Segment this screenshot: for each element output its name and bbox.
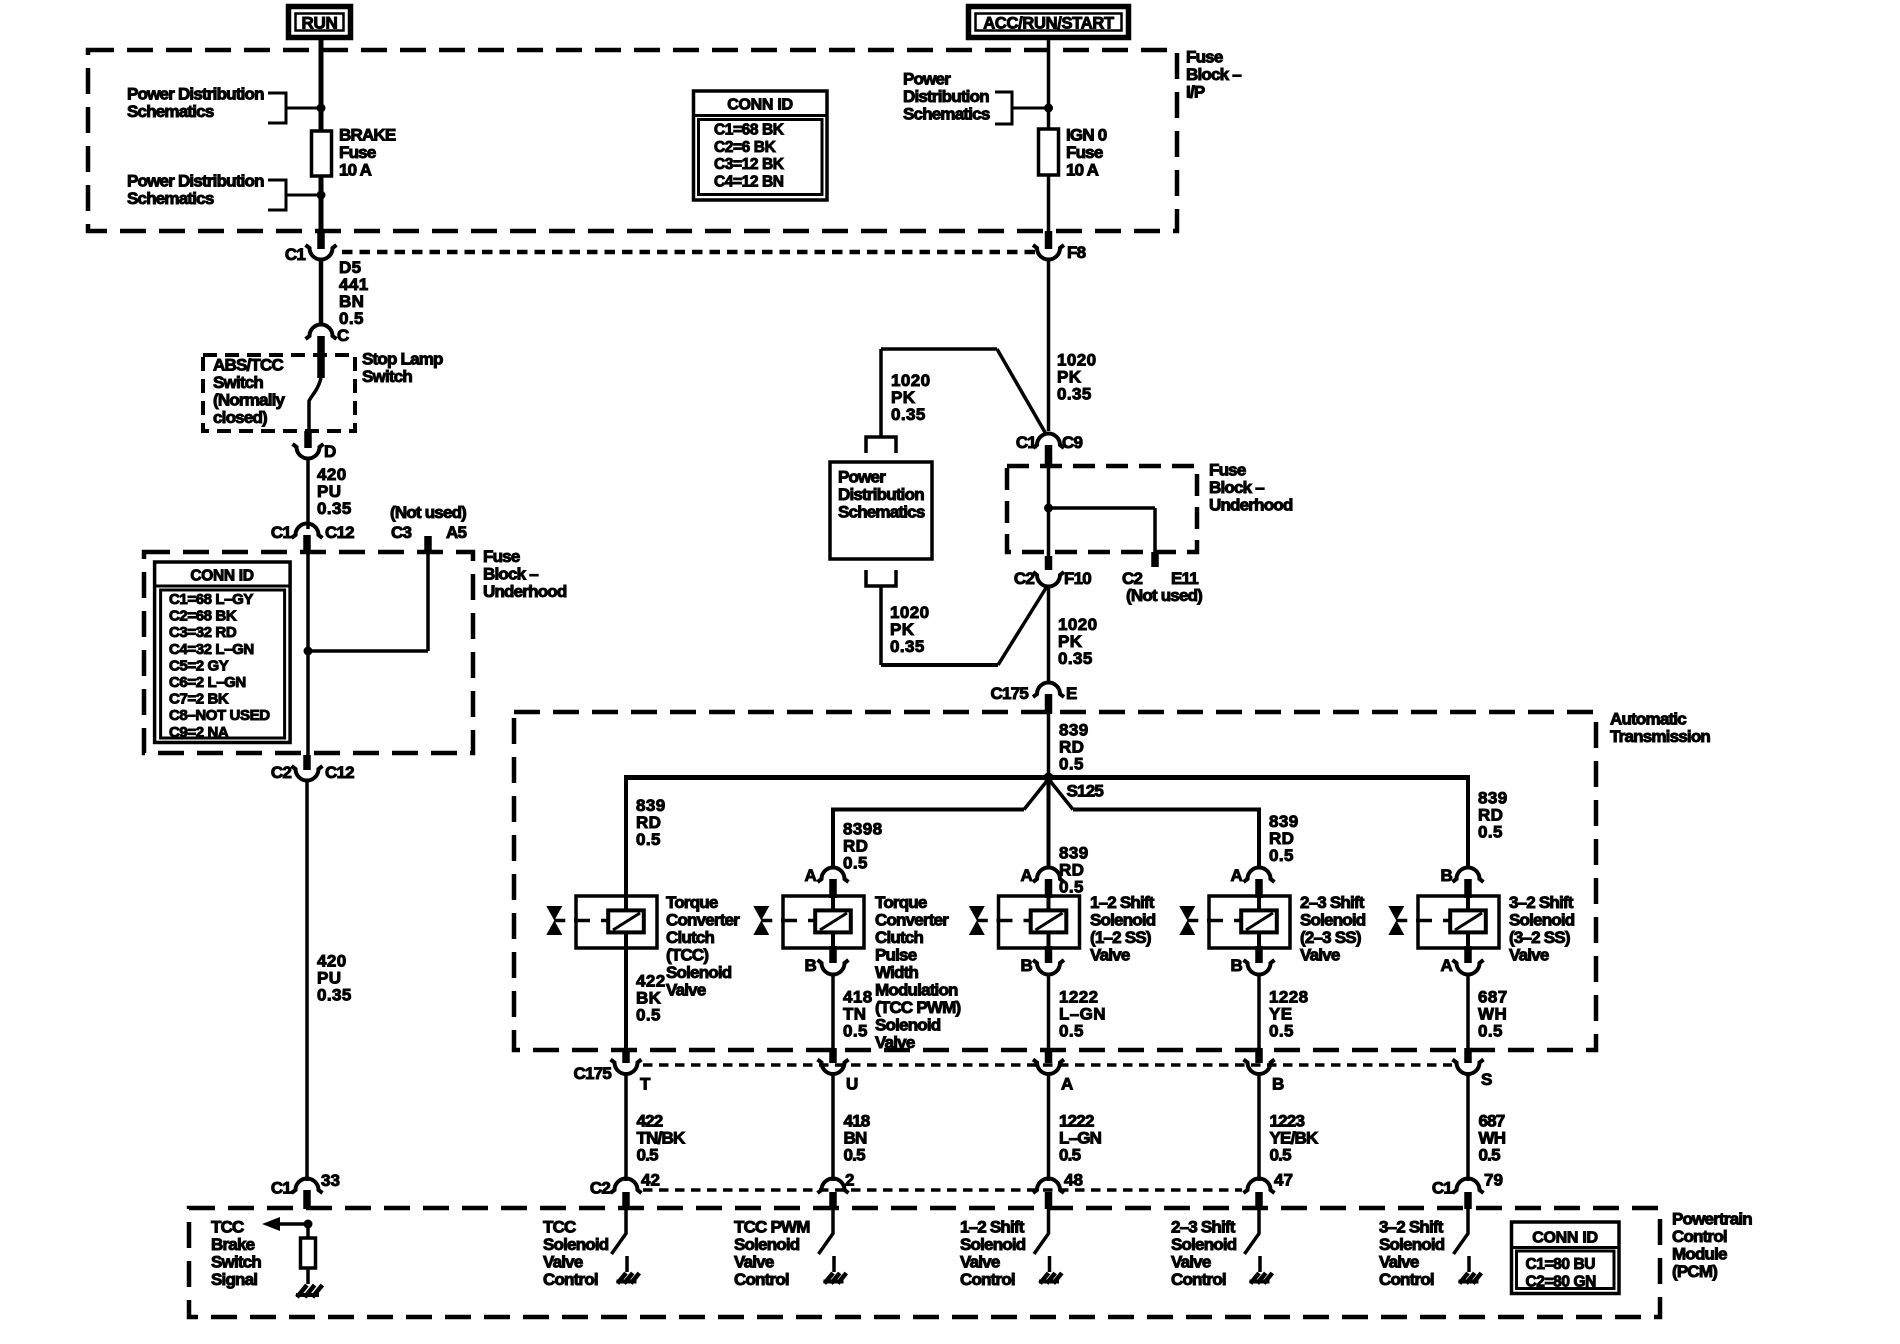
svg-text:C12: C12 xyxy=(325,763,354,782)
svg-text:0.5: 0.5 xyxy=(1479,1146,1501,1165)
svg-text:Solenoid: Solenoid xyxy=(1171,1235,1237,1254)
svg-text:(Normally: (Normally xyxy=(213,391,286,410)
svg-text:0.5: 0.5 xyxy=(637,1146,659,1165)
wire C175 to PCM (1222) xyxy=(1047,1074,1051,1181)
svg-text:Stop Lamp: Stop Lamp xyxy=(362,350,443,369)
svg-text:Solenoid: Solenoid xyxy=(1509,911,1575,930)
fuse block underhood dashed box (left) xyxy=(144,552,473,753)
svg-text:C1: C1 xyxy=(285,245,305,264)
wire C175 to PCM (687) xyxy=(1466,1074,1470,1181)
svg-text:Schematics: Schematics xyxy=(838,503,925,522)
wire C175/E to S125 xyxy=(1047,712,1051,779)
connector dashed line C1-F8 xyxy=(342,250,1035,255)
svg-text:Valve: Valve xyxy=(1379,1253,1419,1272)
svg-text:B: B xyxy=(1231,956,1243,975)
splice dot S125 xyxy=(1044,773,1054,783)
connector C1/79 (PCM) xyxy=(1453,1179,1484,1194)
svg-text:0.35: 0.35 xyxy=(1058,649,1093,668)
wire ACC/RUN/START to F8 xyxy=(1047,40,1051,249)
svg-text:Valve: Valve xyxy=(875,1033,915,1052)
svg-text:Brake: Brake xyxy=(211,1235,255,1254)
svg-text:C: C xyxy=(337,326,349,345)
bracket power distribution schematics box (top) xyxy=(866,437,896,453)
svg-text:Control: Control xyxy=(1672,1227,1727,1246)
svg-text:C2=80 GN: C2=80 GN xyxy=(1526,1274,1597,1291)
wire junction to E11 xyxy=(1049,506,1156,510)
wire TCC solenoid to C175/T xyxy=(624,948,628,1050)
svg-text:F8: F8 xyxy=(1067,243,1086,262)
svg-text:ABS/TCC: ABS/TCC xyxy=(213,356,283,375)
powertrain control module dashed box xyxy=(189,1208,1660,1317)
svg-text:S125: S125 xyxy=(1067,782,1104,801)
svg-text:TCC PWM: TCC PWM xyxy=(734,1218,810,1237)
svg-text:F10: F10 xyxy=(1064,569,1091,588)
svg-text:U: U xyxy=(846,1075,858,1094)
svg-text:Block –: Block – xyxy=(1186,65,1241,84)
wire drop to TCC solenoid xyxy=(624,775,628,896)
svg-text:Clutch: Clutch xyxy=(666,928,715,947)
wire branch to power distribution (top) xyxy=(881,347,997,351)
fuse BRAKE 10A xyxy=(312,131,332,176)
power source box ACC/RUN/START xyxy=(969,7,1129,38)
wire B to C175/U xyxy=(831,974,835,1050)
solenoid valve TCC PWM xyxy=(783,896,864,948)
svg-text:C3=32 RD: C3=32 RD xyxy=(169,624,237,641)
svg-text:0.5: 0.5 xyxy=(1059,755,1084,774)
connector 2 (PCM) xyxy=(818,1179,849,1194)
svg-text:CONN ID: CONN ID xyxy=(190,568,253,585)
connector 47 (PCM) xyxy=(1244,1179,1275,1194)
svg-text:(Not used): (Not used) xyxy=(390,503,466,522)
svg-text:10 A: 10 A xyxy=(1066,161,1099,180)
connector B (TCC PWM solenoid) xyxy=(829,946,837,963)
svg-text:Valve: Valve xyxy=(960,1253,1000,1272)
svg-text:Valve: Valve xyxy=(1171,1253,1211,1272)
svg-text:Power: Power xyxy=(903,70,951,89)
ground (TCC brake switch) xyxy=(296,1293,319,1297)
splice bus S125 xyxy=(626,775,1468,780)
wire A5 to junction xyxy=(426,552,430,651)
svg-text:A: A xyxy=(805,866,817,885)
svg-text:Torque: Torque xyxy=(875,893,927,912)
svg-text:(1–2 SS): (1–2 SS) xyxy=(1090,928,1151,947)
svg-text:47: 47 xyxy=(1274,1171,1293,1190)
connector C2/F10 (underhood fuse block out) xyxy=(1045,556,1053,570)
wire inside underhood block xyxy=(306,550,310,758)
svg-text:0.5: 0.5 xyxy=(636,830,661,849)
wire C175 to PCM (422) xyxy=(624,1074,628,1181)
svg-text:Power: Power xyxy=(838,468,886,487)
svg-text:BRAKE: BRAKE xyxy=(339,126,396,145)
power source box RUN xyxy=(289,7,351,38)
connector C175/S xyxy=(1464,1048,1472,1063)
svg-text:33: 33 xyxy=(321,1171,340,1190)
svg-text:C8–NOT USED: C8–NOT USED xyxy=(169,707,270,724)
svg-text:0.5: 0.5 xyxy=(1270,1146,1292,1165)
svg-text:Fuse: Fuse xyxy=(1209,461,1246,480)
connector dotted line PCM C2 xyxy=(643,1188,1242,1191)
wire C175 to PCM (1223) xyxy=(1257,1074,1261,1181)
svg-text:C9=2 NA: C9=2 NA xyxy=(169,724,229,741)
svg-text:Distribution: Distribution xyxy=(838,485,924,504)
svg-text:0.5: 0.5 xyxy=(1269,1022,1294,1041)
svg-text:RUN: RUN xyxy=(302,14,338,33)
svg-text:Valve: Valve xyxy=(543,1253,583,1272)
svg-text:Switch: Switch xyxy=(362,367,412,386)
svg-text:Power Distribution: Power Distribution xyxy=(127,85,264,104)
solenoid valve 3-2 shift xyxy=(1418,896,1499,948)
svg-text:1–2 Shift: 1–2 Shift xyxy=(1090,893,1155,912)
connector F8 (fuse block I/P, right) xyxy=(1045,231,1053,249)
svg-text:C9: C9 xyxy=(1062,433,1082,452)
wire C175 to PCM (418) xyxy=(831,1074,835,1181)
junction dot xyxy=(304,647,313,656)
svg-text:0.35: 0.35 xyxy=(1057,385,1092,404)
svg-text:IGN 0: IGN 0 xyxy=(1066,126,1107,145)
svg-text:Module: Module xyxy=(1672,1245,1727,1264)
svg-text:(2–3 SS): (2–3 SS) xyxy=(1300,928,1361,947)
svg-text:C1=68 L–GY: C1=68 L–GY xyxy=(169,591,253,608)
connector C1/33 (PCM left) xyxy=(292,1179,323,1194)
svg-text:Torque: Torque xyxy=(666,893,718,912)
svg-text:C3=12 BK: C3=12 BK xyxy=(714,156,785,173)
stop lamp switch blade xyxy=(309,378,321,431)
junction dot xyxy=(1044,504,1053,513)
wire inside underhood block (right) xyxy=(1047,462,1051,560)
svg-text:C1: C1 xyxy=(271,523,291,542)
svg-text:C2: C2 xyxy=(271,763,291,782)
diagonal wire to C1/C9 xyxy=(997,349,1046,434)
wire RUN to C1 xyxy=(319,40,324,247)
connector B (1-2 shift solenoid) xyxy=(1045,946,1053,963)
diagonal wire to C2/F10 xyxy=(998,588,1046,665)
conn id table (PCM) xyxy=(1512,1222,1620,1294)
svg-text:A5: A5 xyxy=(446,523,466,542)
svg-text:Solenoid: Solenoid xyxy=(1300,911,1366,930)
svg-text:Transmission: Transmission xyxy=(1610,727,1710,746)
svg-text:C4=12 BN: C4=12 BN xyxy=(714,174,784,191)
svg-text:0.5: 0.5 xyxy=(1059,1022,1084,1041)
switch 1-2 shift solenoid valve control xyxy=(1045,1192,1053,1209)
switch TCC solenoid valve control xyxy=(622,1192,630,1209)
wire drop to 2-3 shift solenoid xyxy=(1257,808,1261,869)
svg-text:Signal: Signal xyxy=(211,1270,257,1289)
connector C175/T xyxy=(622,1048,630,1063)
svg-text:0.35: 0.35 xyxy=(317,499,352,518)
svg-text:Valve: Valve xyxy=(1300,946,1340,965)
svg-text:Valve: Valve xyxy=(1090,946,1130,965)
bracket power distribution schematics box (bottom) xyxy=(866,570,896,586)
svg-text:Switch: Switch xyxy=(211,1253,261,1272)
svg-text:Fuse: Fuse xyxy=(1066,143,1103,162)
svg-text:Fuse: Fuse xyxy=(1186,48,1223,67)
svg-text:0.5: 0.5 xyxy=(844,1146,866,1165)
fuse IGN 0 10A xyxy=(1039,129,1059,175)
wire C2/C12 to C1/33 xyxy=(305,780,309,1181)
svg-text:Power Distribution: Power Distribution xyxy=(127,172,264,191)
connector dotted line C175 xyxy=(643,1063,1452,1066)
svg-text:(3–2 SS): (3–2 SS) xyxy=(1509,928,1570,947)
bracket to power distribution schematics (upper left) xyxy=(268,93,286,123)
switch 2-3 shift solenoid valve control xyxy=(1255,1192,1263,1209)
svg-text:Solenoid: Solenoid xyxy=(1090,911,1156,930)
junction dot xyxy=(304,1220,313,1229)
wire A to C175/S xyxy=(1466,974,1470,1050)
svg-text:T: T xyxy=(640,1075,651,1094)
wire drop to 1-2 shift solenoid xyxy=(1047,779,1051,868)
svg-text:Block –: Block – xyxy=(483,565,538,584)
connector 48 (PCM) xyxy=(1033,1179,1064,1194)
svg-text:D: D xyxy=(324,442,336,461)
connector A (TCC PWM solenoid) xyxy=(818,868,849,883)
svg-text:0.5: 0.5 xyxy=(843,1022,868,1041)
solenoid valve 2-3 shift xyxy=(1209,896,1290,948)
svg-text:CONN ID: CONN ID xyxy=(727,97,792,114)
wire C1 to C xyxy=(319,259,324,326)
svg-text:A: A xyxy=(1061,1075,1073,1094)
connector B (3-2 shift solenoid) xyxy=(1453,868,1484,883)
svg-text:Valve: Valve xyxy=(666,981,706,1000)
svg-text:Block –: Block – xyxy=(1209,478,1264,497)
wire B to C175/A xyxy=(1047,974,1051,1050)
arrow TCC brake switch signal xyxy=(276,1222,308,1226)
svg-text:C7=2 BK: C7=2 BK xyxy=(169,691,229,708)
connector A (2-3 shift solenoid) xyxy=(1244,868,1275,883)
svg-text:I/P: I/P xyxy=(1186,83,1205,102)
svg-text:Valve: Valve xyxy=(734,1253,774,1272)
svg-text:C2=68 BK: C2=68 BK xyxy=(169,608,237,625)
svg-text:C5=2 GY: C5=2 GY xyxy=(169,657,229,674)
svg-text:2–3 Shift: 2–3 Shift xyxy=(1300,893,1365,912)
wire drop to TCC PWM solenoid xyxy=(831,808,835,869)
svg-text:Valve: Valve xyxy=(1509,946,1549,965)
svg-text:Clutch: Clutch xyxy=(875,928,924,947)
svg-text:(TCC): (TCC) xyxy=(666,946,708,965)
svg-text:TCC: TCC xyxy=(543,1218,576,1237)
svg-text:S: S xyxy=(1481,1070,1492,1089)
svg-text:Width: Width xyxy=(875,963,918,982)
svg-text:Schematics: Schematics xyxy=(127,189,214,208)
svg-text:C2: C2 xyxy=(590,1179,610,1198)
solenoid valve TCC xyxy=(576,896,657,948)
svg-text:Fuse: Fuse xyxy=(483,547,520,566)
svg-text:Control: Control xyxy=(960,1270,1015,1289)
svg-text:Solenoid: Solenoid xyxy=(543,1235,609,1254)
stub A5 (not used) xyxy=(424,536,432,554)
svg-text:0.5: 0.5 xyxy=(1478,823,1503,842)
bracket to power distribution schematics (right) xyxy=(995,92,1012,124)
bracket to power distribution schematics (lower left) xyxy=(268,180,286,210)
connector C1/C12 (underhood fuse block in) xyxy=(292,524,323,539)
svg-text:Switch: Switch xyxy=(213,373,263,392)
svg-text:closed): closed) xyxy=(213,408,267,427)
conn id table (fuse block I/P) xyxy=(694,91,828,200)
connector C1 (fuse block I/P, left) xyxy=(317,231,325,249)
connector C175/E (transmission in) xyxy=(1033,683,1064,698)
svg-text:Control: Control xyxy=(734,1270,789,1289)
svg-text:Converter: Converter xyxy=(875,911,949,930)
svg-text:2: 2 xyxy=(845,1171,854,1190)
svg-text:3–2 Shift: 3–2 Shift xyxy=(1509,893,1574,912)
svg-text:Control: Control xyxy=(1379,1270,1434,1289)
svg-text:Underhood: Underhood xyxy=(1209,496,1293,515)
svg-text:0.35: 0.35 xyxy=(317,986,352,1005)
connector C2/C12 (underhood fuse block out) xyxy=(303,755,311,770)
svg-text:Schematics: Schematics xyxy=(903,105,990,124)
solenoid valve 1-2 shift xyxy=(999,896,1080,948)
resistor (pull-up) TCC brake switch xyxy=(306,1224,310,1238)
svg-text:Solenoid: Solenoid xyxy=(734,1235,800,1254)
svg-text:Powertrain: Powertrain xyxy=(1672,1210,1752,1229)
svg-text:B: B xyxy=(1441,866,1453,885)
svg-text:Schematics: Schematics xyxy=(127,102,214,121)
svg-text:C1=68 BK: C1=68 BK xyxy=(714,122,785,139)
switch 3-2 shift solenoid valve control xyxy=(1464,1192,1472,1209)
connector C175/A xyxy=(1045,1048,1053,1063)
svg-text:10 A: 10 A xyxy=(339,161,372,180)
svg-text:0.35: 0.35 xyxy=(890,637,925,656)
stop lamp switch dashed box xyxy=(203,355,355,431)
junction dot xyxy=(317,191,326,200)
svg-text:C12: C12 xyxy=(325,523,354,542)
svg-text:A: A xyxy=(1441,956,1453,975)
svg-text:E: E xyxy=(1066,684,1077,703)
connector C175/B xyxy=(1255,1048,1263,1063)
svg-text:Underhood: Underhood xyxy=(483,582,567,601)
svg-text:Converter: Converter xyxy=(666,911,740,930)
svg-text:Pulse: Pulse xyxy=(875,946,917,965)
svg-text:2–3 Shift: 2–3 Shift xyxy=(1171,1218,1236,1237)
junction dot xyxy=(1044,104,1053,113)
svg-text:0.35: 0.35 xyxy=(891,405,926,424)
svg-text:B: B xyxy=(1272,1075,1284,1094)
svg-text:C1=80 BU: C1=80 BU xyxy=(1526,1256,1596,1273)
connector C1/C9 (underhood fuse block in) xyxy=(1047,259,1051,431)
connector D (stop lamp switch out) xyxy=(304,431,312,448)
connector B (2-3 shift solenoid) xyxy=(1255,946,1263,963)
svg-text:C2: C2 xyxy=(1014,569,1034,588)
svg-text:B: B xyxy=(1021,956,1033,975)
svg-text:0.5: 0.5 xyxy=(1059,1146,1081,1165)
wire D to C1/C12 xyxy=(306,458,310,529)
switch TCC PWM solenoid valve control xyxy=(829,1192,837,1209)
svg-text:TCC: TCC xyxy=(211,1218,244,1237)
connector A (3-2 shift solenoid) xyxy=(1464,946,1472,963)
svg-text:3–2 Shift: 3–2 Shift xyxy=(1379,1218,1444,1237)
junction dot xyxy=(317,104,326,113)
wire power distribution box to diagonal xyxy=(879,586,883,665)
wire B to C175/B xyxy=(1257,974,1261,1050)
svg-text:Fuse: Fuse xyxy=(339,143,376,162)
automatic transmission dashed box xyxy=(514,712,1596,1050)
svg-text:1–2 Shift: 1–2 Shift xyxy=(960,1218,1025,1237)
connector C175/U xyxy=(829,1048,837,1063)
svg-text:Modulation: Modulation xyxy=(875,981,958,1000)
svg-text:C1: C1 xyxy=(1432,1179,1452,1198)
svg-text:0.5: 0.5 xyxy=(1269,846,1294,865)
svg-text:48: 48 xyxy=(1064,1171,1083,1190)
svg-text:0.5: 0.5 xyxy=(636,1006,661,1025)
svg-text:42: 42 xyxy=(641,1171,660,1190)
svg-text:Solenoid: Solenoid xyxy=(960,1235,1026,1254)
svg-text:Solenoid: Solenoid xyxy=(875,1016,941,1035)
branch bus lower xyxy=(833,808,1024,812)
svg-text:C3: C3 xyxy=(391,523,411,542)
svg-text:(PCM): (PCM) xyxy=(1672,1262,1717,1281)
svg-text:Control: Control xyxy=(543,1270,598,1289)
svg-text:Distribution: Distribution xyxy=(903,87,989,106)
svg-text:C1: C1 xyxy=(271,1179,291,1198)
svg-text:C1: C1 xyxy=(1016,433,1036,452)
svg-text:ACC/RUN/START: ACC/RUN/START xyxy=(983,15,1114,33)
svg-text:CONN ID: CONN ID xyxy=(1532,1230,1597,1247)
svg-text:Solenoid: Solenoid xyxy=(1379,1235,1445,1254)
svg-text:(TCC PWM): (TCC PWM) xyxy=(875,998,960,1017)
svg-text:Control: Control xyxy=(1171,1270,1226,1289)
wire drop to 3-2 shift solenoid xyxy=(1466,775,1470,868)
svg-text:C2=6 BK: C2=6 BK xyxy=(714,139,777,156)
power distribution schematics box xyxy=(830,462,932,559)
svg-text:B: B xyxy=(805,956,817,975)
svg-text:0.5: 0.5 xyxy=(1478,1022,1503,1041)
svg-text:(Not used): (Not used) xyxy=(1126,586,1202,605)
fuse block underhood dashed box (right) xyxy=(1007,466,1197,552)
svg-text:C6=2 L–GN: C6=2 L–GN xyxy=(169,674,246,691)
svg-text:0.5: 0.5 xyxy=(843,854,868,873)
svg-text:A: A xyxy=(1021,866,1033,885)
connector A (1-2 shift solenoid) xyxy=(1033,868,1064,883)
svg-text:Automatic: Automatic xyxy=(1610,710,1686,729)
svg-text:C175: C175 xyxy=(991,684,1029,703)
svg-text:Solenoid: Solenoid xyxy=(666,963,732,982)
svg-text:A: A xyxy=(1231,866,1243,885)
conn id table (underhood) xyxy=(155,562,291,743)
connector C (stop lamp switch) xyxy=(306,325,337,340)
connector C2/42 (PCM) xyxy=(611,1179,642,1194)
svg-text:79: 79 xyxy=(1484,1171,1503,1190)
svg-text:C4=32 L–GN: C4=32 L–GN xyxy=(169,641,254,658)
svg-text:C175: C175 xyxy=(574,1064,612,1083)
wire C2/F10 to C175/E xyxy=(1047,586,1051,684)
fuse block I/P dashed box xyxy=(88,50,1177,231)
